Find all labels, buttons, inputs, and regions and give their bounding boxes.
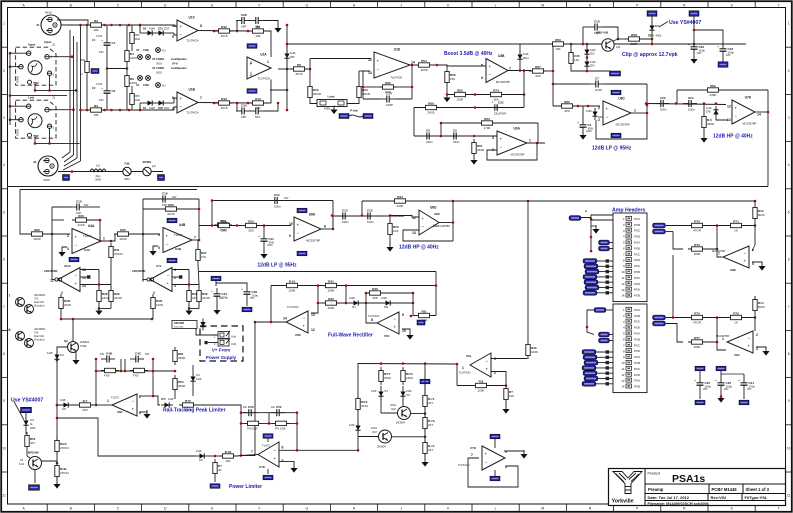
- text lp95 mid: [257, 263, 297, 269]
- op-amp U5D: [283, 305, 315, 337]
- diode D15: [196, 450, 208, 462]
- node hp2 marks: [361, 200, 757, 217]
- svg-text:63V: 63V: [172, 196, 177, 199]
- text boost: [444, 51, 493, 57]
- capacitor C2B: [250, 17, 264, 29]
- svg-text:1: 1: [634, 109, 636, 113]
- svg-text:150K: 150K: [456, 98, 463, 102]
- resistor R36 fb: [162, 203, 180, 216]
- wire C4 drop: [582, 106, 584, 119]
- svg-text:10K: 10K: [225, 459, 230, 463]
- svg-text:J2: J2: [52, 43, 55, 47]
- wire R61: [571, 44, 610, 71]
- wire pl caps rails: [241, 413, 297, 456]
- svg-text:Filename: M1449V02SCH.sch2006: Filename: M1449V02SCH.sch2006: [648, 502, 709, 506]
- ground U4B: [149, 247, 156, 256]
- svg-text:R71: R71: [733, 219, 739, 223]
- diode D5 lp: [586, 108, 603, 120]
- wire U1B in: [174, 98, 177, 110]
- svg-text:MPSA06: MPSA06: [28, 451, 39, 455]
- svg-text:C4B: C4B: [106, 352, 113, 356]
- svg-text:8P/8: 8P/8: [135, 34, 141, 37]
- resistor R31 drop: [109, 243, 123, 261]
- net label U10 bot: [490, 476, 500, 481]
- wire C1: [106, 25, 108, 86]
- svg-text:7: 7: [471, 453, 473, 457]
- svg-text:R12: R12: [221, 25, 227, 29]
- svg-text:Q2: Q2: [64, 339, 68, 343]
- svg-text:2K7: 2K7: [428, 401, 434, 405]
- svg-text:4148: 4148: [47, 352, 53, 355]
- header P1 supply: [214, 331, 237, 339]
- svg-text:R77: R77: [694, 336, 700, 340]
- wire C3B loop: [236, 103, 278, 111]
- diode D9 rail drop: [517, 51, 529, 63]
- resistor R13: [215, 97, 233, 110]
- wire J1 to rail: [57, 20, 96, 25]
- svg-text:8: 8: [788, 352, 790, 356]
- wire q4 down: [34, 470, 36, 484]
- svg-text:1: 1: [529, 139, 531, 143]
- svg-text:C6: C6: [426, 129, 430, 133]
- wire H3 drop: [590, 218, 593, 253]
- title block product label: [648, 472, 660, 476]
- wire fwr top loop: [366, 292, 413, 294]
- svg-text:+: +: [101, 87, 103, 91]
- op-amp U1A: [247, 53, 271, 81]
- resistor R85 drop: [213, 459, 222, 477]
- svg-text:27K: 27K: [201, 255, 206, 259]
- diode D19: [400, 388, 412, 400]
- svg-text:MC33078P: MC33078P: [496, 80, 510, 84]
- resistor R76: [727, 311, 745, 324]
- capacitor C16 fb: [589, 20, 603, 36]
- capacitor C11 shunt: [258, 233, 274, 247]
- resistor R8: [249, 25, 267, 38]
- resistor R92: [401, 367, 414, 385]
- wire U3A fb loop: [487, 143, 537, 160]
- svg-text:2N3904: 2N3904: [377, 446, 386, 449]
- net label U9A in a: [653, 315, 666, 320]
- resistor R12: [215, 25, 233, 38]
- svg-text:1: 1: [3, 22, 5, 26]
- node pl in: [240, 454, 243, 457]
- svg-text:TL072: TL072: [111, 396, 119, 400]
- svg-text:R26: R26: [34, 228, 40, 232]
- title block product name PSA1s: [672, 473, 705, 485]
- wire C32 drop: [693, 16, 695, 43]
- svg-text:U5C: U5C: [384, 334, 390, 338]
- svg-text:−: −: [180, 32, 183, 37]
- wire R10 rise: [265, 80, 271, 104]
- svg-text:100V: 100V: [267, 244, 273, 247]
- svg-text:160K: 160K: [693, 345, 700, 349]
- svg-text:10K: 10K: [509, 394, 514, 398]
- svg-text:+: +: [180, 96, 183, 101]
- net label fwr out: [417, 320, 425, 325]
- node U3A out: [536, 142, 539, 145]
- wire Q2 riser: [72, 319, 74, 342]
- svg-text:3: 3: [494, 357, 496, 361]
- svg-text:+: +: [101, 39, 103, 43]
- resistor R30 fb: [72, 214, 90, 227]
- svg-text:RED: RED: [648, 34, 654, 38]
- svg-text:5: 5: [282, 459, 284, 463]
- wire u8a out tip: [96, 404, 112, 406]
- svg-text:C23: C23: [660, 96, 666, 100]
- resistor R35b: [114, 228, 132, 241]
- svg-text:J4: J4: [33, 160, 37, 164]
- wire u9a fb: [666, 324, 683, 343]
- svg-text:2: 2: [250, 73, 252, 77]
- wire U6C out: [631, 112, 647, 114]
- ground H3: [591, 225, 600, 234]
- op-amp U6C: [598, 97, 636, 127]
- svg-text:MC33078P: MC33078P: [511, 153, 525, 157]
- svg-text:ZD3: ZD3: [164, 27, 169, 31]
- resistor R5 2M2: [80, 58, 89, 76]
- svg-text:4148: 4148: [349, 424, 355, 427]
- wire u9a gnd: [756, 347, 766, 349]
- net label R5 blue: [91, 69, 99, 74]
- svg-text:D?0: D?0: [161, 398, 166, 401]
- svg-text:ZD5: ZD5: [290, 56, 295, 59]
- svg-text:25V: 25V: [250, 297, 255, 300]
- svg-text:2K05: 2K05: [64, 303, 71, 307]
- svg-text:+: +: [500, 137, 503, 142]
- node lp2 nodes: [211, 199, 266, 227]
- diode D18: [371, 388, 389, 400]
- svg-text:2K15: 2K15: [220, 34, 227, 38]
- svg-text:COM: COM: [143, 84, 149, 87]
- capacitor C46: [715, 377, 733, 391]
- svg-text:R62: R62: [710, 84, 716, 88]
- svg-text:D/8: D/8: [62, 408, 66, 411]
- svg-text:10K6: 10K6: [130, 56, 137, 60]
- svg-text:Boost 3.5dB @ 40Hz: Boost 3.5dB @ 40Hz: [444, 51, 493, 57]
- svg-text:R36: R36: [168, 203, 174, 207]
- svg-text:10pF: 10pF: [594, 31, 601, 35]
- svg-text:U7D: U7D: [745, 96, 752, 100]
- svg-text:10K: 10K: [255, 34, 260, 38]
- svg-text:−: −: [489, 72, 492, 77]
- svg-text:TL074CN: TL074CN: [258, 77, 270, 81]
- svg-text:C7: C7: [595, 77, 599, 81]
- op-amp U6A: [289, 213, 326, 243]
- svg-text:150K: 150K: [384, 376, 391, 380]
- svg-text:P/OB: P/OB: [634, 247, 640, 250]
- wire Q2 base tie: [57, 347, 68, 352]
- resistor R60: [558, 100, 576, 113]
- svg-text:13: 13: [368, 71, 372, 75]
- wire R8 drop: [265, 31, 271, 57]
- pad COM1: [136, 49, 150, 59]
- net label H4 feed: [594, 308, 613, 313]
- svg-text:−: −: [75, 243, 78, 248]
- svg-text:2: 2: [756, 333, 758, 337]
- resistor R51: [472, 139, 485, 157]
- svg-text:C50: C50: [248, 405, 254, 409]
- pad K2: [156, 83, 166, 88]
- svg-text:100n: 100n: [688, 108, 695, 112]
- net label C40 bot: [695, 400, 705, 405]
- wire U5C out: [366, 303, 377, 323]
- svg-text:P/OB: P/OB: [634, 338, 640, 341]
- svg-text:R57: R57: [535, 65, 541, 69]
- svg-text:2K0: 2K0: [82, 408, 88, 412]
- svg-text:J3: J3: [52, 96, 55, 100]
- svg-text:+: +: [606, 107, 609, 112]
- svg-text:P/OB: P/OB: [634, 295, 640, 298]
- wire fwr diode row: [318, 302, 413, 304]
- wire R9 to U1D: [308, 59, 371, 70]
- svg-text:25V: 25V: [219, 297, 224, 300]
- resistor R58: [625, 33, 643, 46]
- node C3B: [277, 102, 280, 105]
- svg-text:63V: 63V: [145, 353, 150, 356]
- wire q cluster links: [381, 386, 403, 413]
- svg-text:+: +: [274, 456, 277, 461]
- svg-text:1: 1: [462, 366, 464, 370]
- net label U9B in b: [653, 229, 666, 234]
- svg-text:4K7: 4K7: [30, 441, 36, 445]
- svg-text:−: −: [297, 231, 300, 236]
- wire C11: [263, 226, 265, 253]
- wire stageA vres bottoms: [98, 305, 111, 310]
- svg-text:G: G: [305, 506, 308, 510]
- svg-text:C22: C22: [498, 100, 504, 104]
- svg-text:12: 12: [311, 328, 315, 332]
- svg-text:R72: R72: [694, 243, 700, 247]
- svg-text:4148: 4148: [149, 106, 155, 110]
- wire q5 base: [381, 412, 398, 414]
- wire U5D out: [254, 321, 286, 324]
- wire u9a riser: [716, 318, 718, 343]
- svg-text:6: 6: [788, 258, 790, 262]
- svg-text:4148: 4148: [196, 450, 202, 453]
- ground lead: [330, 106, 337, 115]
- svg-text:−: −: [500, 145, 503, 150]
- svg-text:U4A: U4A: [88, 224, 95, 228]
- svg-text:C31: C31: [616, 46, 621, 49]
- svg-text:D?B: D?B: [706, 111, 711, 114]
- svg-text:4K16: 4K16: [361, 404, 368, 408]
- net label lead a: [339, 114, 349, 119]
- wire u7b top stub: [267, 438, 269, 442]
- svg-text:47UF: 47UF: [96, 34, 103, 38]
- resistor R91: [379, 367, 391, 385]
- node U6C out: [646, 104, 649, 115]
- svg-text:C5: C5: [453, 129, 457, 133]
- svg-text:UF COM/A: UF COM/A: [152, 67, 165, 70]
- resistor R14B: [753, 296, 766, 314]
- svg-text:3: 3: [756, 347, 758, 351]
- svg-text:10: 10: [621, 361, 625, 365]
- resistor R10: [249, 97, 267, 110]
- svg-text:P/OD: P/OD: [634, 283, 640, 286]
- op-amp U6D: [412, 206, 450, 236]
- wire C33 link: [693, 29, 723, 44]
- svg-text:3: 3: [67, 247, 69, 251]
- svg-text:4148: 4148: [523, 53, 529, 56]
- svg-text:D/6: D/6: [199, 459, 203, 462]
- net label ys: [21, 407, 32, 413]
- svg-text:MC33078P: MC33078P: [616, 123, 630, 127]
- svg-text:R58: R58: [631, 33, 637, 37]
- net label C46 top: [716, 366, 726, 371]
- svg-text:4K99: 4K99: [420, 68, 427, 72]
- svg-text:Input: Input: [44, 40, 51, 44]
- wire stageA left drop: [20, 190, 28, 235]
- wire U11A in: [80, 261, 111, 288]
- svg-text:TL074CN: TL074CN: [287, 305, 299, 309]
- resistor R34 spare: [357, 83, 371, 101]
- capacitor C41: [738, 377, 756, 391]
- wire D8 stub: [286, 44, 288, 69]
- wire H4 left bracket: [586, 310, 594, 335]
- resistor R52: [451, 88, 469, 101]
- svg-text:4148: 4148: [60, 399, 66, 402]
- svg-text:U?B: U?B: [259, 465, 265, 469]
- resistor R7e: [272, 421, 290, 430]
- svg-text:11: 11: [622, 367, 625, 371]
- capacitor C24: [683, 96, 697, 112]
- node lp: [552, 43, 555, 86]
- svg-text:C52: C52: [276, 405, 282, 409]
- svg-text:P/OB: P/OB: [634, 362, 640, 365]
- svg-text:1: 1: [267, 60, 269, 64]
- node U1C out: [213, 30, 250, 33]
- wire D3 D4: [586, 44, 589, 72]
- net label lead b: [363, 114, 373, 119]
- node lp2 out: [331, 214, 334, 217]
- capacitor C4C: [130, 352, 150, 363]
- svg-text:220n: 220n: [426, 140, 433, 144]
- wire lead squiggle: [349, 115, 363, 117]
- svg-text:P/OD: P/OD: [634, 327, 640, 330]
- svg-text:P/OC: P/OC: [634, 230, 640, 233]
- net label J4 blue: [63, 175, 70, 181]
- svg-text:25V: 25V: [724, 388, 729, 391]
- svg-text:9: 9: [402, 313, 404, 317]
- pad COM2: [136, 76, 150, 87]
- svg-text:LM13600N: LM13600N: [34, 329, 46, 331]
- svg-text:+: +: [744, 259, 747, 264]
- svg-text:F: F: [259, 506, 261, 510]
- svg-text:R59: R59: [555, 38, 561, 42]
- resistor R57 lp in: [529, 65, 547, 78]
- svg-text:6: 6: [158, 233, 160, 237]
- wire lp2 top row: [212, 200, 333, 202]
- wire c36 tail: [246, 300, 248, 306]
- svg-text:ZD4: ZD4: [590, 65, 595, 68]
- svg-text:+: +: [694, 379, 696, 383]
- svg-text:3K02: 3K02: [156, 72, 162, 75]
- svg-text:C10: C10: [76, 200, 82, 204]
- svg-text:(Function): (Function): [34, 339, 45, 342]
- wire u9b fb2: [752, 226, 755, 252]
- svg-text:13: 13: [621, 379, 625, 383]
- svg-text:+: +: [297, 223, 300, 228]
- net label U7B bot: [263, 475, 273, 480]
- svg-text:U9A: U9A: [734, 353, 740, 357]
- svg-text:5V6 DNS: 5V6 DNS: [174, 327, 184, 329]
- resistor R30 pl in: [219, 450, 237, 463]
- title block rev: [711, 495, 728, 500]
- wire u9a in2: [706, 341, 726, 350]
- svg-text:C1: C1: [92, 38, 96, 42]
- wire rail y110: [81, 109, 175, 111]
- svg-text:R42: R42: [328, 297, 334, 301]
- svg-text:ZD1: ZD1: [158, 27, 163, 31]
- wire r13b: [754, 201, 756, 226]
- svg-text:Power Limiter: Power Limiter: [229, 484, 262, 490]
- svg-text:U6A: U6A: [309, 213, 316, 217]
- ferrite bead FB2: [143, 160, 156, 176]
- wire U11B pin2 pad: [172, 275, 182, 278]
- resistor R56: [445, 68, 456, 86]
- capacitor C16b fb: [157, 192, 177, 208]
- svg-text:100n: 100n: [660, 108, 667, 112]
- svg-text:U1B: U1B: [189, 88, 196, 92]
- svg-text:J1: J1: [36, 23, 40, 27]
- svg-text:D-6: D-6: [196, 374, 201, 377]
- wire c34 c36 tie: [216, 281, 247, 286]
- resistor R26: [28, 228, 46, 241]
- svg-text:63V: 63V: [99, 98, 104, 102]
- svg-text:2K0: 2K0: [221, 229, 227, 233]
- wire D2 drop: [139, 25, 141, 33]
- svg-text:4105: 4105: [43, 178, 50, 182]
- svg-text:160K: 160K: [693, 252, 700, 256]
- title block date: [648, 495, 690, 500]
- svg-text:−: −: [274, 448, 277, 453]
- svg-text:4?08: 4?08: [133, 375, 139, 378]
- svg-text:3: 3: [788, 116, 790, 120]
- svg-text:P/OD: P/OD: [634, 236, 640, 239]
- svg-text:P/OC: P/OC: [634, 277, 640, 280]
- wire y456 tail: [208, 455, 219, 457]
- node stageA in: [51, 233, 54, 236]
- connector H4 amp header 2: [613, 304, 647, 393]
- node U7D out: [767, 111, 770, 114]
- svg-text:L2: L2: [96, 164, 100, 168]
- svg-text:U?C: U?C: [34, 299, 39, 301]
- wire r14b: [754, 297, 756, 318]
- wire R37: [198, 240, 199, 285]
- svg-text:9: 9: [3, 399, 5, 403]
- net label U9B in a: [653, 223, 666, 228]
- svg-text:170K: 170K: [483, 126, 490, 130]
- svg-text:U5D: U5D: [295, 333, 301, 337]
- svg-text:R53: R53: [484, 117, 490, 121]
- wire U11A pin15 pad: [80, 275, 90, 278]
- svg-text:Yorkville: Yorkville: [612, 499, 634, 505]
- svg-text:4010: 4010: [45, 11, 52, 15]
- resistor R90 x358: [356, 395, 369, 413]
- svg-text:4148: 4148: [381, 297, 387, 300]
- svg-text:F: F: [259, 3, 261, 7]
- svg-text:P/OB: P/OB: [634, 271, 640, 274]
- wire x414 drop: [413, 108, 415, 137]
- node row136: [440, 135, 476, 138]
- wire row y123: [440, 122, 538, 125]
- wire C2B loop: [236, 21, 278, 32]
- svg-text:+: +: [486, 367, 489, 372]
- svg-text:SPAR: SPAR: [362, 92, 371, 96]
- svg-text:L: L: [495, 3, 497, 7]
- wire row y106 lp: [553, 105, 600, 107]
